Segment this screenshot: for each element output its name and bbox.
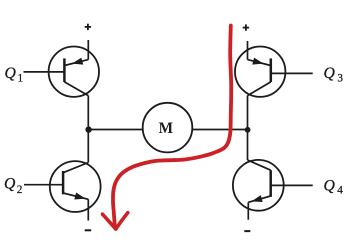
svg-text:3: 3 bbox=[337, 73, 343, 85]
svg-text:Q: Q bbox=[324, 65, 336, 82]
svg-text:4: 4 bbox=[337, 185, 343, 197]
svg-text:Q: Q bbox=[5, 65, 17, 82]
svg-text:Q: Q bbox=[4, 175, 16, 192]
svg-text:1: 1 bbox=[18, 73, 24, 85]
svg-text:Q: Q bbox=[324, 178, 336, 195]
svg-text:M: M bbox=[159, 120, 173, 137]
svg-text:2: 2 bbox=[17, 184, 23, 196]
